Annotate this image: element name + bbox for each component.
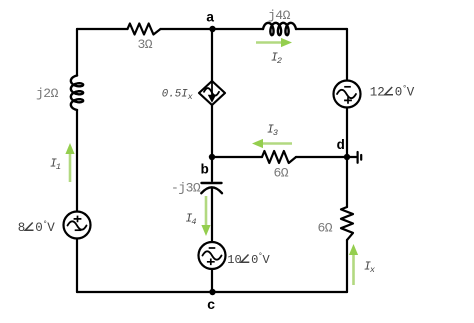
svg-text:x: x <box>369 265 376 275</box>
svg-text:V: V <box>407 86 415 100</box>
svg-text:-j3Ω: -j3Ω <box>171 181 201 196</box>
svg-text:j4Ω: j4Ω <box>268 8 291 23</box>
svg-text:1: 1 <box>56 162 61 172</box>
svg-text:3: 3 <box>273 128 278 138</box>
svg-text:0.5I: 0.5I <box>162 89 188 101</box>
svg-text:V: V <box>47 221 55 235</box>
svg-text:8: 8 <box>18 221 26 235</box>
svg-text:12: 12 <box>370 86 385 100</box>
svg-text:4: 4 <box>191 217 196 227</box>
svg-text:d: d <box>337 138 345 154</box>
svg-text:10: 10 <box>227 253 241 267</box>
svg-text:0: 0 <box>395 86 403 100</box>
svg-text:V: V <box>263 253 271 267</box>
svg-text:2: 2 <box>277 56 282 66</box>
svg-text:6Ω: 6Ω <box>274 166 289 181</box>
svg-text:b: b <box>201 163 209 179</box>
svg-text:3Ω: 3Ω <box>138 37 153 52</box>
svg-text:a: a <box>206 11 215 27</box>
svg-text:x: x <box>187 92 194 102</box>
svg-text:c: c <box>207 298 215 314</box>
svg-text:j2Ω: j2Ω <box>36 86 59 101</box>
svg-text:0: 0 <box>35 221 43 235</box>
svg-text:6Ω: 6Ω <box>318 221 333 236</box>
